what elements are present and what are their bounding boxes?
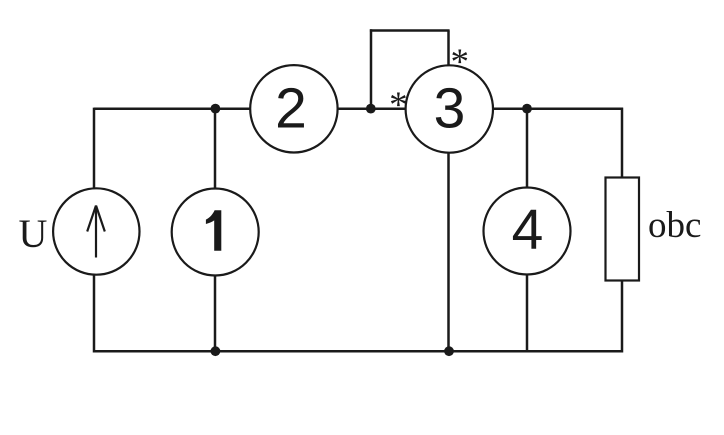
meter 1 circle [172,189,259,276]
wire node C to meter 4 [526,109,529,189]
meter 4 circle [484,188,571,275]
meter 1 label [206,210,221,251]
svg-text:2: 2 [275,77,307,141]
wire meter 3 bottom to bottom wire [447,153,450,352]
node B (junction dot left of meter 3) [366,104,376,114]
wire bottom horizontal [94,350,622,353]
meter 2 circle [250,65,337,152]
meter 3 circle [406,65,493,152]
wire voltage-coil vertical riser at node B [370,29,373,109]
svg-text:*: * [451,42,470,83]
svg-text:U: U [19,211,48,256]
node E (junction dot at meter 3 bottom) [444,346,454,356]
node C (junction dot right of meter 3) [522,104,532,114]
wire left vertical upper (corner to source U) [93,108,96,189]
wire meter 1 to bottom [214,275,217,351]
svg-text:3: 3 [434,77,466,141]
svg-text:*: * [389,85,408,126]
source U arrow [87,206,105,258]
svg-text:4: 4 [512,198,544,262]
wire meter 4 to bottom [526,274,529,351]
wire meter 3 to right corner [493,108,623,111]
wire right vertical upper (corner to resistor) [621,108,624,177]
wire left vertical lower (source U to bottom) [93,275,96,353]
wire voltage-coil loop drop to meter 3 top [447,31,450,67]
wire voltage-coil loop top horizontal [370,29,450,32]
wire top-left horizontal (corner to meter 2) [94,108,251,111]
node A (junction dot at meter 1 top) [211,104,221,114]
resistor obc body [606,178,640,281]
wire meter 2 to meter 3 through node [338,108,407,111]
svg-text:obc: obc [648,205,701,246]
source U circle [53,188,139,274]
wire node A to meter 1 [214,109,217,189]
node D (junction dot at meter 1 bottom) [211,346,221,356]
wire resistor to bottom-right corner [621,281,624,353]
